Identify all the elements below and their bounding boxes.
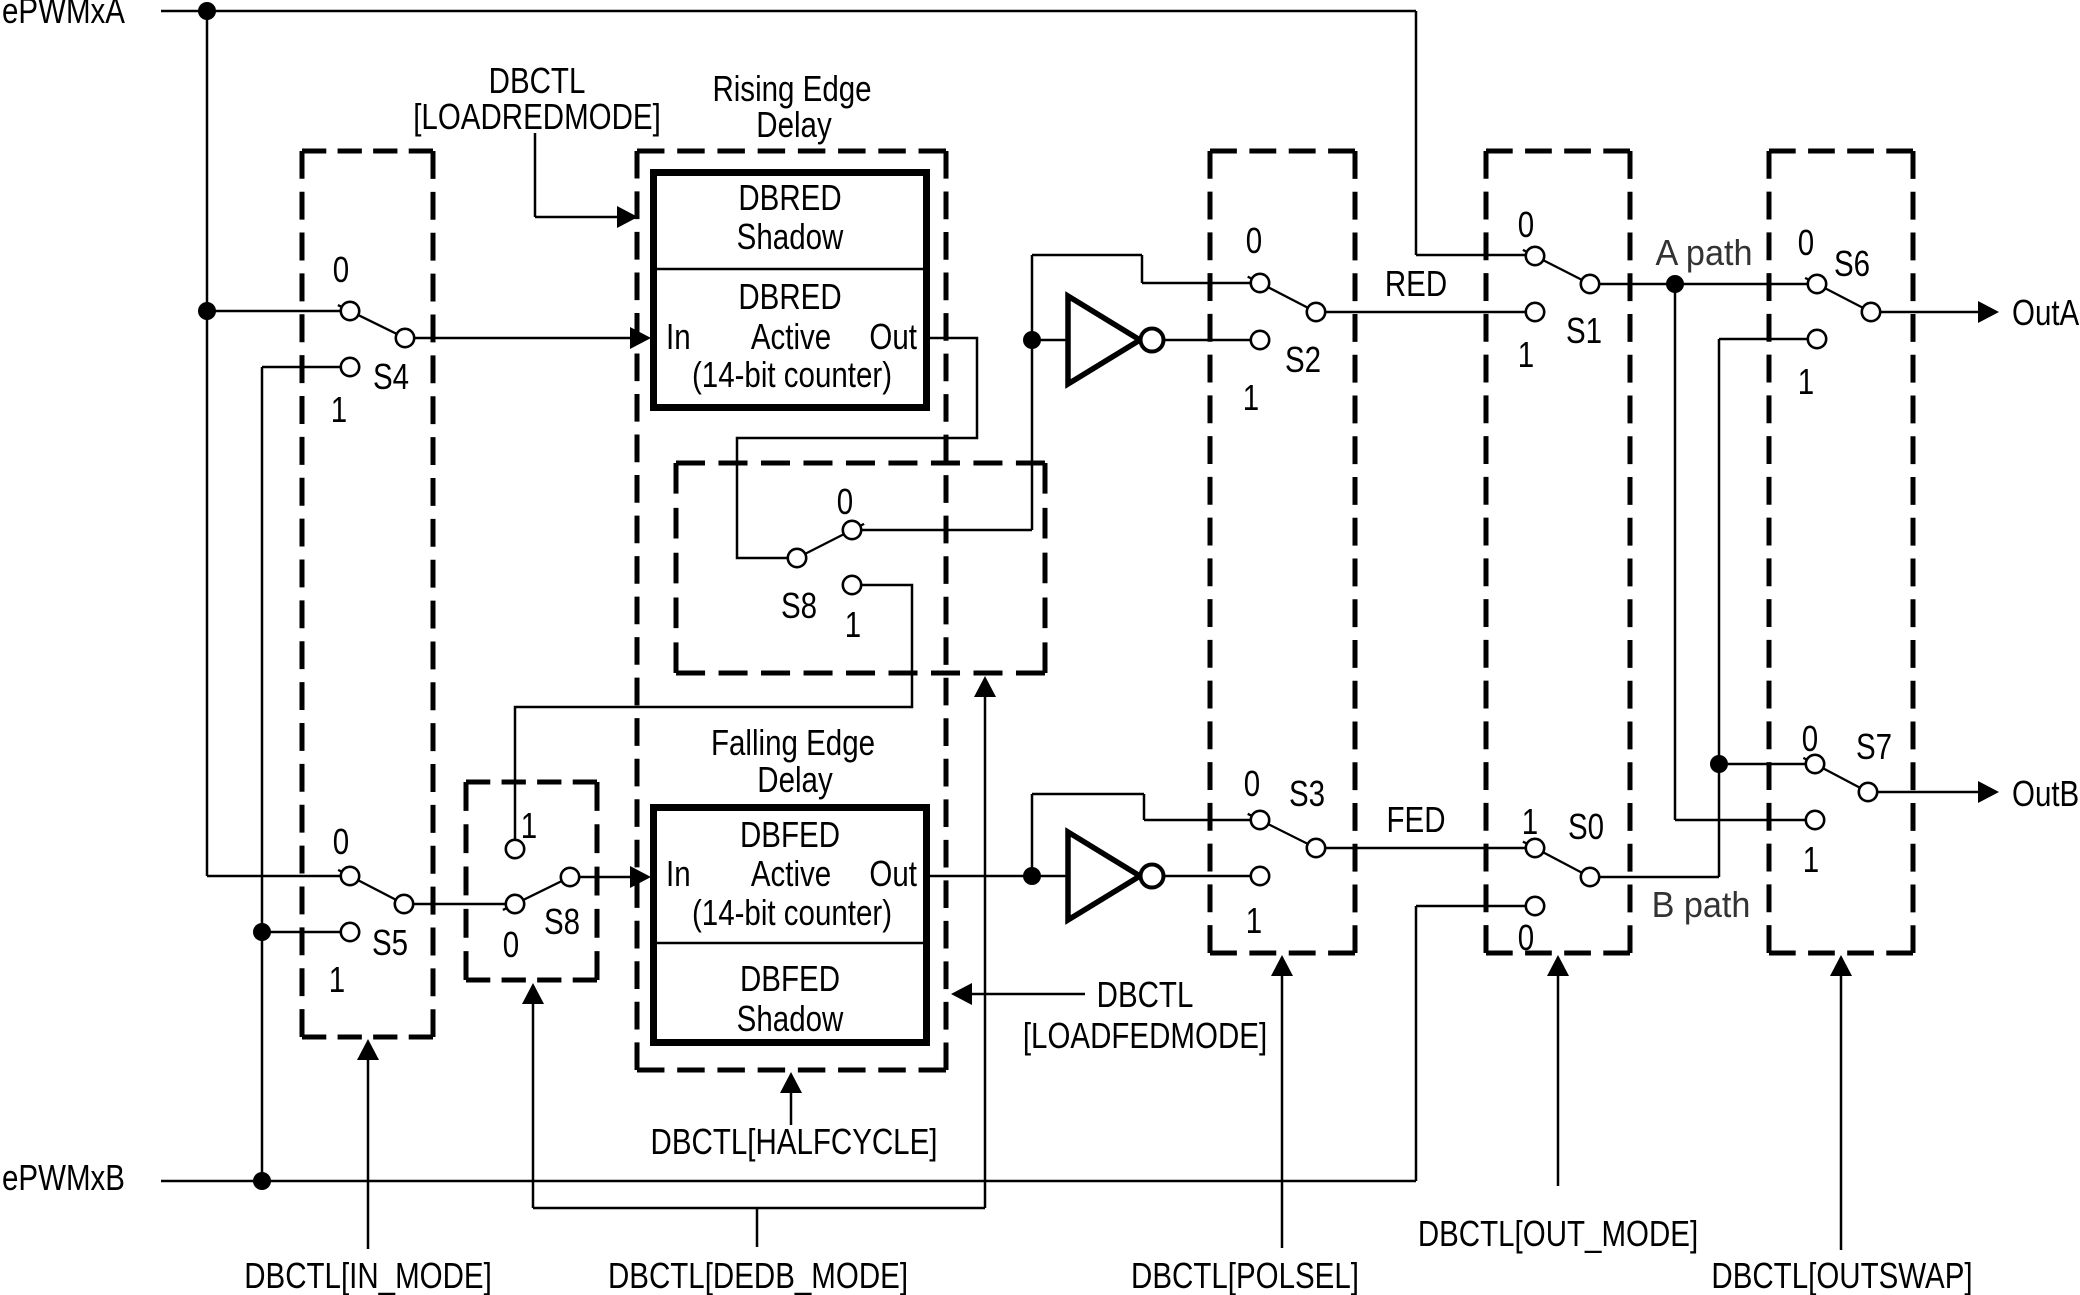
svg-text:1: 1 xyxy=(1803,839,1819,879)
svg-text:DBCTL[DEDB_MODE]: DBCTL[DEDB_MODE] xyxy=(608,1255,908,1295)
svg-text:0: 0 xyxy=(1518,917,1534,957)
svg-text:0: 0 xyxy=(1244,763,1260,803)
svg-text:0: 0 xyxy=(1518,204,1534,244)
svg-text:Active: Active xyxy=(751,316,831,356)
svg-text:S0: S0 xyxy=(1568,806,1604,846)
svg-text:0: 0 xyxy=(503,924,519,964)
svg-text:S5: S5 xyxy=(372,922,408,962)
svg-text:[LOADREDMODE]: [LOADREDMODE] xyxy=(413,96,661,136)
svg-text:DBCTL[IN_MODE]: DBCTL[IN_MODE] xyxy=(244,1255,492,1295)
svg-text:S8: S8 xyxy=(781,585,817,625)
svg-text:DBCTL[OUTSWAP]: DBCTL[OUTSWAP] xyxy=(1711,1255,1972,1295)
svg-text:S3: S3 xyxy=(1289,773,1325,813)
svg-text:1: 1 xyxy=(1246,900,1262,940)
svg-text:Active: Active xyxy=(751,853,831,893)
svg-text:OutB: OutB xyxy=(2012,773,2079,813)
svg-text:[LOADFEDMODE]: [LOADFEDMODE] xyxy=(1023,1015,1267,1055)
svg-text:ePWMxB: ePWMxB xyxy=(2,1157,125,1197)
svg-text:S4: S4 xyxy=(373,356,409,396)
svg-text:Out: Out xyxy=(869,853,917,893)
svg-text:DBFED: DBFED xyxy=(740,814,840,854)
svg-text:In: In xyxy=(666,316,691,356)
svg-text:S6: S6 xyxy=(1834,243,1870,283)
svg-text:In: In xyxy=(666,853,691,893)
svg-text:A path: A path xyxy=(1656,233,1753,273)
svg-text:DBCTL: DBCTL xyxy=(1097,974,1194,1014)
svg-text:ePWMxA: ePWMxA xyxy=(2,0,125,31)
svg-text:Delay: Delay xyxy=(756,104,832,144)
svg-text:S8: S8 xyxy=(544,901,580,941)
svg-text:S7: S7 xyxy=(1856,726,1892,766)
svg-text:1: 1 xyxy=(1798,361,1814,401)
svg-text:DBCTL[HALFCYCLE]: DBCTL[HALFCYCLE] xyxy=(651,1121,938,1161)
svg-text:0: 0 xyxy=(837,481,853,521)
svg-text:1: 1 xyxy=(521,805,537,845)
svg-text:1: 1 xyxy=(845,604,861,644)
svg-text:Falling Edge: Falling Edge xyxy=(711,722,875,762)
svg-text:0: 0 xyxy=(333,821,349,861)
svg-text:Rising Edge: Rising Edge xyxy=(712,68,871,108)
svg-text:S2: S2 xyxy=(1285,339,1321,379)
svg-text:S1: S1 xyxy=(1566,310,1602,350)
svg-text:(14-bit counter): (14-bit counter) xyxy=(692,354,892,394)
svg-text:Out: Out xyxy=(869,316,917,356)
svg-text:FED: FED xyxy=(1386,799,1445,839)
svg-text:0: 0 xyxy=(1246,220,1262,260)
svg-text:(14-bit counter): (14-bit counter) xyxy=(692,892,892,932)
svg-text:0: 0 xyxy=(1802,718,1818,758)
svg-text:DBCTL: DBCTL xyxy=(489,60,586,100)
svg-text:OutA: OutA xyxy=(2012,292,2079,332)
svg-text:1: 1 xyxy=(1243,377,1259,417)
svg-text:0: 0 xyxy=(333,249,349,289)
svg-text:1: 1 xyxy=(331,389,347,429)
svg-text:DBFED: DBFED xyxy=(740,958,840,998)
svg-text:B path: B path xyxy=(1652,885,1751,925)
svg-text:DBCTL[POLSEL]: DBCTL[POLSEL] xyxy=(1131,1255,1359,1295)
svg-text:Shadow: Shadow xyxy=(737,998,844,1038)
svg-text:DBRED: DBRED xyxy=(738,276,841,316)
svg-text:1: 1 xyxy=(329,959,345,999)
svg-text:Shadow: Shadow xyxy=(737,216,844,256)
svg-text:DBRED: DBRED xyxy=(738,177,841,217)
svg-text:1: 1 xyxy=(1522,801,1538,841)
svg-text:DBCTL[OUT_MODE]: DBCTL[OUT_MODE] xyxy=(1418,1213,1698,1253)
svg-text:Delay: Delay xyxy=(757,759,833,799)
svg-text:1: 1 xyxy=(1518,334,1534,374)
svg-text:0: 0 xyxy=(1798,222,1814,262)
svg-text:RED: RED xyxy=(1385,263,1447,303)
